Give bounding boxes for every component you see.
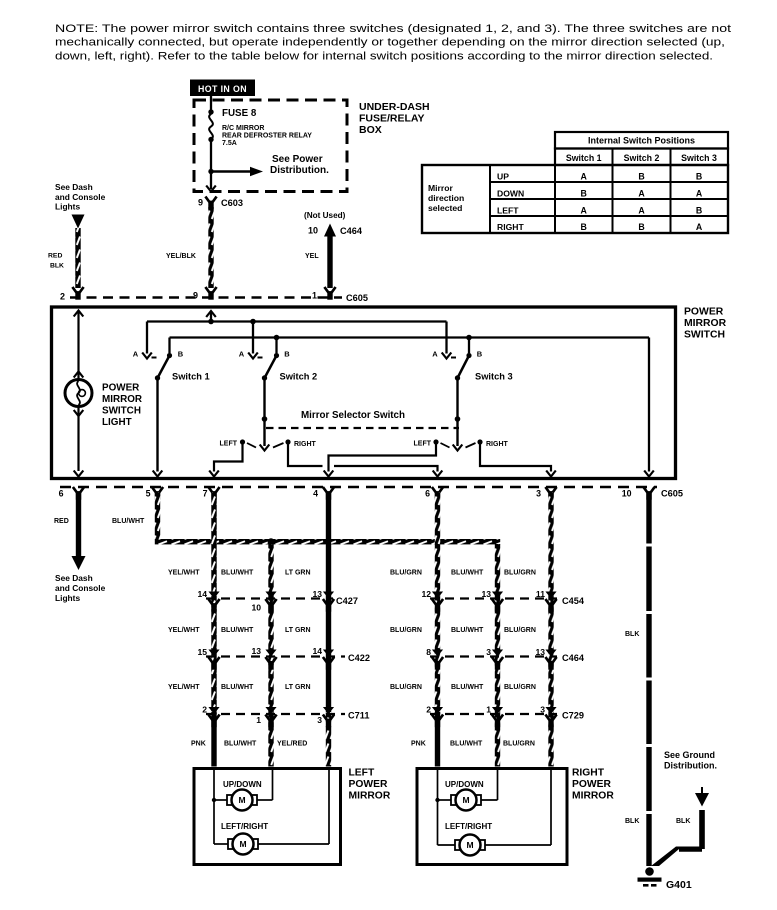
- svg-text:14: 14: [312, 646, 322, 656]
- svg-text:MIRROR: MIRROR: [572, 791, 614, 802]
- fuse 8: [208, 108, 312, 147]
- svg-text:B: B: [477, 350, 483, 359]
- svg-text:B: B: [581, 222, 587, 232]
- svg-text:RED: RED: [54, 518, 69, 525]
- svg-text:Switch 3: Switch 3: [681, 153, 717, 163]
- svg-text:LT GRN: LT GRN: [285, 684, 311, 691]
- svg-text:RIGHT: RIGHT: [497, 222, 524, 232]
- svg-text:See Dash: See Dash: [55, 573, 93, 583]
- BLU/WHT bus to both mirrors: [155, 539, 500, 544]
- switch 3 common wire: [453, 378, 463, 451]
- svg-text:and Console: and Console: [55, 192, 106, 202]
- svg-text:LIGHT: LIGHT: [102, 417, 132, 428]
- svg-text:BLU/WHT: BLU/WHT: [221, 627, 254, 634]
- svg-text:C464: C464: [340, 226, 363, 236]
- connector C603 pin 9: [198, 197, 243, 210]
- svg-text:3: 3: [317, 715, 322, 725]
- switch 2: [239, 322, 317, 382]
- svg-text:BLK: BLK: [625, 631, 639, 638]
- left power mirror box: [194, 769, 341, 865]
- wire PNK left mirror: [211, 712, 216, 767]
- switch 1 common wire to pin 5: [153, 378, 163, 477]
- wire color labels row 2: [168, 627, 536, 634]
- svg-text:A: A: [696, 189, 703, 199]
- feed bus A: [147, 320, 447, 322]
- svg-text:LEFT: LEFT: [349, 768, 375, 779]
- svg-text:(Not Used): (Not Used): [304, 211, 346, 220]
- connector row C464: [426, 647, 585, 670]
- svg-text:BLU/GRN: BLU/GRN: [504, 627, 536, 634]
- wire BLU/WHT left mirror: [268, 544, 273, 767]
- svg-text:10: 10: [622, 489, 632, 499]
- svg-text:BLK: BLK: [625, 818, 639, 825]
- svg-text:Lights: Lights: [55, 202, 80, 212]
- svg-text:LEFT: LEFT: [497, 206, 519, 216]
- wire PNK right mirror: [435, 712, 440, 767]
- svg-text:direction: direction: [428, 193, 464, 203]
- svg-text:2: 2: [426, 705, 431, 715]
- svg-text:5: 5: [146, 489, 151, 499]
- svg-text:PNK: PNK: [411, 741, 426, 748]
- svg-text:YEL/RED: YEL/RED: [277, 741, 307, 748]
- svg-text:A: A: [239, 350, 245, 359]
- under-dash fuse/relay box (dashed): [194, 100, 347, 192]
- connector C464 pin 10 (not used): [304, 211, 363, 237]
- wire color labels row 1: [168, 570, 536, 577]
- svg-text:B: B: [284, 350, 290, 359]
- svg-text:10: 10: [308, 226, 318, 236]
- svg-text:SWITCH: SWITCH: [684, 330, 725, 341]
- see ground distribution: [664, 750, 717, 771]
- svg-text:POWER: POWER: [572, 779, 611, 790]
- svg-text:1: 1: [256, 715, 261, 725]
- right mirror internal wiring: [435, 770, 551, 845]
- svg-text:BLU/GRN: BLU/GRN: [503, 741, 535, 748]
- svg-text:selected: selected: [428, 203, 462, 213]
- svg-text:BLU/WHT: BLU/WHT: [451, 627, 484, 634]
- svg-text:1: 1: [312, 291, 317, 301]
- see dash and console lights (bottom): [55, 573, 106, 603]
- svg-text:C605: C605: [661, 489, 683, 499]
- svg-text:9: 9: [198, 198, 203, 208]
- node on BLU/WHT bus: [268, 538, 275, 545]
- svg-text:A: A: [581, 206, 588, 216]
- left mirror internal wiring: [212, 770, 329, 844]
- svg-text:BLU/GRN: BLU/GRN: [390, 684, 422, 691]
- svg-text:A: A: [696, 222, 703, 232]
- connector row C729: [426, 705, 584, 728]
- svg-text:YEL: YEL: [305, 253, 319, 260]
- feed bus B: [170, 336, 650, 338]
- svg-text:13: 13: [251, 646, 261, 656]
- svg-text:11: 11: [536, 589, 545, 599]
- svg-text:B: B: [178, 350, 184, 359]
- wire RED/BLK: [75, 228, 80, 288]
- svg-text:Switch 1: Switch 1: [172, 372, 210, 382]
- svg-text:A: A: [638, 206, 645, 216]
- svg-text:BLU/WHT: BLU/WHT: [224, 741, 257, 748]
- selector pole 1: [220, 439, 317, 448]
- wire YEL/RED left mirror: [326, 712, 331, 767]
- svg-text:6: 6: [425, 489, 430, 499]
- connector row C422: [197, 646, 370, 670]
- wire BLK from pin 10 to G401: [646, 493, 651, 866]
- svg-text:NOTE: The power mirror switch: NOTE: The power mirror switch contains t…: [55, 23, 732, 35]
- svg-text:POWER: POWER: [102, 383, 139, 394]
- svg-text:Mirror Selector Switch: Mirror Selector Switch: [301, 410, 405, 421]
- svg-text:13: 13: [312, 589, 322, 599]
- svg-text:C605: C605: [346, 293, 368, 303]
- svg-text:MIRROR: MIRROR: [102, 394, 142, 405]
- svg-text:BLU/WHT: BLU/WHT: [451, 570, 484, 577]
- svg-text:Internal Switch Positions: Internal Switch Positions: [588, 136, 695, 146]
- svg-text:Distribution.: Distribution.: [270, 165, 329, 176]
- svg-text:B: B: [638, 222, 644, 232]
- svg-text:UP/DOWN: UP/DOWN: [445, 780, 484, 789]
- see dash and console lights (top): [55, 182, 106, 229]
- svg-text:BLU/WHT: BLU/WHT: [451, 684, 484, 691]
- svg-text:A: A: [638, 189, 645, 199]
- svg-text:BLU/GRN: BLU/GRN: [504, 570, 536, 577]
- svg-text:BLU/GRN: BLU/GRN: [390, 627, 422, 634]
- svg-text:2: 2: [202, 705, 207, 715]
- svg-text:A: A: [432, 350, 438, 359]
- right power mirror box: [417, 769, 567, 865]
- svg-text:LEFT/RIGHT: LEFT/RIGHT: [221, 822, 268, 831]
- wire color labels row 3: [168, 684, 536, 691]
- svg-text:C603: C603: [221, 198, 243, 208]
- svg-text:UP: UP: [497, 172, 509, 182]
- HOT IN ON label: [190, 80, 255, 97]
- svg-text:BLU/GRN: BLU/GRN: [390, 570, 422, 577]
- wire from HOT IN ON to fuse: [210, 95, 212, 112]
- wire pole2 RIGHT to pin 3: [480, 444, 556, 477]
- ground G401: [638, 867, 692, 891]
- svg-text:6: 6: [59, 489, 64, 499]
- junction node in fuse box: [208, 169, 213, 174]
- wire YEL/WHT pin 7: [211, 492, 216, 714]
- svg-text:A: A: [133, 350, 139, 359]
- svg-text:Lights: Lights: [55, 593, 80, 603]
- switch 2 common wire: [260, 378, 270, 451]
- svg-text:C711: C711: [348, 711, 369, 721]
- svg-text:See Power: See Power: [272, 154, 323, 165]
- wire pole1 LEFT to pin 7: [209, 444, 242, 477]
- svg-text:POWER: POWER: [349, 779, 388, 790]
- svg-text:BLK: BLK: [676, 818, 690, 825]
- svg-text:HOT IN ON: HOT IN ON: [198, 84, 247, 94]
- internal switch positions table: [422, 132, 728, 233]
- wire pole2 LEFT to pin 4: [324, 444, 436, 477]
- wire RED pin 6 to dash lights: [54, 492, 86, 570]
- svg-text:R/C MIRROR: R/C MIRROR: [222, 125, 264, 132]
- svg-text:and Console: and Console: [55, 583, 106, 593]
- svg-text:BLU/GRN: BLU/GRN: [504, 684, 536, 691]
- wire BLU/WHT pin 5: [155, 492, 160, 540]
- svg-text:YEL/WHT: YEL/WHT: [168, 627, 200, 634]
- node on bus B at switch3: [466, 335, 472, 341]
- svg-text:7.5A: 7.5A: [222, 140, 237, 147]
- svg-text:C729: C729: [562, 711, 584, 721]
- wire bus B to pin 10: [644, 338, 654, 477]
- switch 1: [133, 322, 210, 382]
- wire pole1 RIGHT to pin 6: [288, 444, 442, 477]
- svg-text:FUSE 8: FUSE 8: [222, 108, 257, 119]
- svg-text:C454: C454: [562, 596, 585, 606]
- wire fuse to box bottom: [210, 140, 212, 190]
- svg-text:Switch 3: Switch 3: [475, 372, 513, 382]
- svg-text:Mirror: Mirror: [428, 183, 453, 193]
- arrowhead at fuse box exit: [206, 186, 216, 192]
- svg-text:B: B: [696, 206, 702, 216]
- UNDER-DASH FUSE/RELAY BOX label: [359, 101, 430, 136]
- svg-text:A: A: [581, 172, 588, 182]
- note text: [55, 23, 732, 62]
- node on bus B at switch2: [274, 335, 280, 341]
- svg-text:FUSE/RELAY: FUSE/RELAY: [359, 113, 425, 125]
- svg-text:Switch 1: Switch 1: [566, 153, 602, 163]
- wire YEL/BLK from C603: [208, 207, 213, 288]
- switch 3: [432, 322, 512, 382]
- svg-text:LEFT/RIGHT: LEFT/RIGHT: [445, 822, 492, 831]
- svg-text:LEFT: LEFT: [414, 441, 432, 448]
- svg-text:4: 4: [313, 489, 318, 499]
- svg-text:RIGHT: RIGHT: [486, 441, 509, 448]
- svg-text:MIRROR: MIRROR: [684, 318, 727, 329]
- svg-text:G401: G401: [666, 879, 692, 891]
- svg-text:C422: C422: [348, 653, 370, 663]
- svg-text:BLU/WHT: BLU/WHT: [221, 570, 254, 577]
- svg-text:LT GRN: LT GRN: [285, 570, 311, 577]
- svg-text:LEFT: LEFT: [220, 441, 238, 448]
- svg-text:RIGHT: RIGHT: [294, 441, 317, 448]
- power mirror switch box: [52, 307, 676, 479]
- svg-text:Switch 2: Switch 2: [624, 153, 660, 163]
- selector linkage dashed line: [266, 427, 459, 429]
- svg-text:3: 3: [486, 647, 491, 657]
- svg-text:mechanically connected, but op: mechanically connected, but operate inde…: [55, 37, 725, 49]
- node on bus A at pin9: [208, 319, 214, 325]
- svg-text:1: 1: [486, 705, 491, 715]
- svg-text:3: 3: [540, 705, 545, 715]
- wire BLU/WHT right mirror: [495, 544, 500, 767]
- svg-text:2: 2: [60, 292, 65, 302]
- svg-text:SWITCH: SWITCH: [102, 406, 141, 417]
- connector row C454: [421, 589, 584, 612]
- connector row C711: [202, 705, 369, 728]
- wire color labels row 4: [191, 741, 535, 748]
- power mirror switch light bulb: [65, 311, 92, 477]
- wire BLU/GRN pin 6: [435, 492, 440, 714]
- svg-text:C464: C464: [562, 653, 585, 663]
- svg-text:down, left, right). Refer to t: down, left, right). Refer to the table b…: [55, 50, 713, 62]
- wire BLU/GRN pin 3: [548, 492, 553, 767]
- svg-text:BLU/WHT: BLU/WHT: [221, 684, 254, 691]
- selector pole 2: [414, 439, 509, 448]
- svg-text:MIRROR: MIRROR: [349, 791, 391, 802]
- svg-text:13: 13: [481, 589, 491, 599]
- svg-text:REAR DEFROSTER RELAY: REAR DEFROSTER RELAY: [222, 132, 312, 139]
- svg-text:DOWN: DOWN: [497, 189, 524, 199]
- svg-text:See Ground: See Ground: [664, 750, 715, 760]
- svg-text:12: 12: [421, 589, 431, 599]
- svg-text:BLK: BLK: [50, 263, 64, 270]
- svg-text:RED: RED: [48, 253, 62, 260]
- svg-text:YEL/WHT: YEL/WHT: [168, 570, 200, 577]
- svg-text:B: B: [638, 172, 644, 182]
- svg-text:YEL/BLK: YEL/BLK: [166, 253, 196, 260]
- svg-text:PNK: PNK: [191, 741, 206, 748]
- svg-text:14: 14: [197, 589, 207, 599]
- svg-text:Switch 2: Switch 2: [280, 372, 318, 382]
- svg-text:BLU/WHT: BLU/WHT: [450, 741, 483, 748]
- arrow to See Power Distribution: [211, 154, 329, 176]
- svg-text:BLU/WHT: BLU/WHT: [112, 518, 145, 525]
- wire YEL: [327, 236, 332, 288]
- svg-text:13: 13: [535, 647, 545, 657]
- svg-text:C427: C427: [336, 596, 358, 606]
- svg-text:8: 8: [426, 647, 431, 657]
- svg-text:3: 3: [536, 489, 541, 499]
- svg-text:7: 7: [203, 489, 208, 499]
- svg-text:Distribution.: Distribution.: [664, 761, 717, 771]
- svg-text:BOX: BOX: [359, 124, 382, 136]
- svg-text:10: 10: [251, 603, 261, 613]
- svg-text:See Dash: See Dash: [55, 182, 93, 192]
- connector row C427: [197, 589, 358, 613]
- connector row C605 (top): [60, 287, 368, 303]
- svg-text:UNDER-DASH: UNDER-DASH: [359, 101, 430, 113]
- connector row C605 (bottom): [59, 487, 683, 500]
- svg-text:UP/DOWN: UP/DOWN: [223, 780, 262, 789]
- svg-text:RIGHT: RIGHT: [572, 768, 605, 779]
- svg-text:LT GRN: LT GRN: [285, 627, 311, 634]
- svg-text:YEL/WHT: YEL/WHT: [168, 684, 200, 691]
- node on bus A at switch2: [250, 319, 256, 325]
- wire LT GRN pin 4: [326, 492, 331, 714]
- svg-text:B: B: [696, 172, 702, 182]
- svg-text:POWER: POWER: [684, 307, 724, 318]
- svg-text:15: 15: [197, 647, 207, 657]
- svg-text:B: B: [581, 189, 587, 199]
- feed arrow from pin 9: [206, 311, 216, 322]
- svg-text:9: 9: [193, 291, 198, 301]
- wire BLK from ground distribution: [651, 787, 709, 866]
